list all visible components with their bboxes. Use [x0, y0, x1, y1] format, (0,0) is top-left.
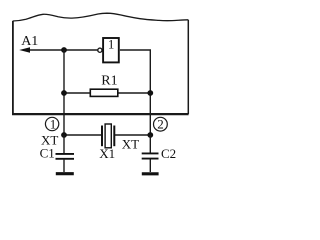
capacitor C1 bottom plate [56, 158, 75, 160]
pin 1 circled number [45, 116, 58, 131]
op-amp U1 inverter gate box with label 1 [103, 37, 119, 63]
svg-text:XT: XT [122, 137, 139, 152]
svg-text:2: 2 [157, 117, 164, 132]
arrowhead A1 [19, 47, 30, 52]
pin 2 circled number [154, 117, 168, 132]
svg-text:A1: A1 [21, 34, 38, 49]
node junction dot (64,135) [61, 132, 67, 138]
svg-text:1: 1 [108, 37, 115, 52]
wire: node 1 to crystal left plate [64, 134, 101, 136]
svg-text:R1: R1 [101, 74, 117, 89]
node junction dot (64,93) [61, 90, 67, 96]
node junction dot (64,50) [61, 47, 67, 53]
wire: node 2 down to C2 [149, 135, 151, 153]
crystal X1 left plate [101, 126, 103, 147]
capacitor C1 top plate [56, 153, 75, 155]
resistor R1 body [90, 89, 118, 96]
wire: vertical right x=150 down to XT2 node [149, 93, 151, 135]
capacitor C2 top plate [142, 152, 159, 154]
wire: R1 right lead [118, 92, 151, 94]
wire: arrow line to A1 [27, 49, 64, 51]
node junction dot (150,93) [147, 90, 153, 96]
wire: C1 to ground [63, 160, 65, 172]
wire: inverter output to right vertical [120, 50, 150, 93]
op-amp U1 inverter input bubble [98, 48, 102, 52]
IC outline box (torn wavy top edge) [12, 13, 189, 114]
crystal X1 body rectangle [105, 124, 111, 148]
ground (C2) [142, 172, 159, 175]
wire: vertical left x=64 from top junction down to XT1 node [63, 50, 65, 135]
node junction dot (150,135) [147, 132, 153, 138]
capacitor C2 bottom plate [142, 158, 159, 160]
wire: crystal right plate to node 2 [115, 134, 150, 136]
svg-text:1: 1 [50, 116, 57, 131]
wire: R1 left lead [64, 92, 90, 94]
wire: junction to inverter input bubble [64, 49, 98, 51]
ground (C1) [56, 172, 74, 175]
svg-text:X1: X1 [99, 146, 115, 161]
wire: node 1 down to C1 [63, 135, 65, 153]
svg-text:C2: C2 [161, 146, 176, 161]
wire: C2 to ground [149, 159, 151, 172]
svg-text:C1: C1 [40, 146, 55, 161]
crystal X1 right plate [113, 126, 115, 147]
